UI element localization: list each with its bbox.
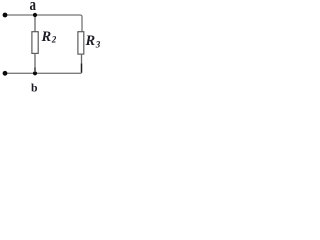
wire left branch lower (R2 to node b) [34,53,36,67]
svg-text:b: b [31,81,38,95]
node a junction dot [33,13,37,17]
wire bottom horizontal b-line [5,72,82,74]
svg-text:a: a [30,0,37,14]
terminal dot top-left [3,13,8,18]
wire left branch upper (node a to R2) [34,15,36,32]
resistor R3 body [78,32,84,54]
svg-text:R: R [41,29,52,45]
wire top horizontal a-line with corner to R3 [5,15,82,32]
wire left branch dark segment above node b [34,68,36,72]
svg-text:2: 2 [51,35,57,45]
resistor R2 body [32,32,38,54]
wire right vertical lower dark segment [81,64,83,73]
terminal dot bottom-left [3,71,8,76]
node b junction dot [33,71,37,75]
svg-text:3: 3 [95,39,101,49]
svg-text:R: R [85,33,96,49]
wire right vertical lower [81,54,83,64]
